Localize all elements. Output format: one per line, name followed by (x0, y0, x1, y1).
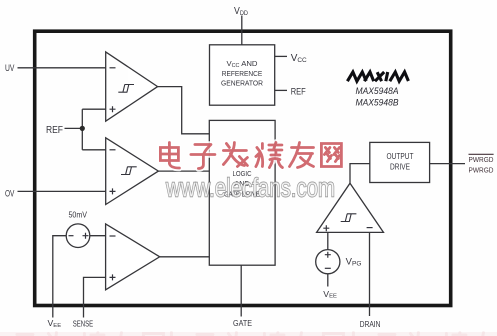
wire U2 output to logic block (158, 87, 210, 134)
svg-text:REF: REF (291, 87, 306, 98)
source V2 VPG (327, 232, 329, 249)
source V1 50mV offset (66, 224, 90, 248)
svg-text:PWRGD: PWRGD (469, 155, 494, 164)
block U7 output drive (370, 142, 430, 182)
comparator U3 overvoltage (106, 138, 159, 205)
svg-text:50mV: 50mV (69, 209, 88, 219)
hysteresis symbol comparator U3 (121, 167, 137, 175)
svg-text:MAX5948B: MAX5948B (356, 97, 400, 108)
junction node REF (80, 126, 85, 131)
IC boundary box (35, 31, 451, 305)
svg-text:VPG: VPG (346, 257, 362, 268)
pin REF stub (275, 89, 287, 91)
svg-text:REFERENCE: REFERENCE (222, 69, 263, 78)
wire GATE (240, 265, 242, 316)
wire U3 output to logic block (158, 170, 209, 172)
svg-text:GENERATOR: GENERATOR (221, 78, 263, 87)
svg-text:OV: OV (5, 188, 14, 198)
svg-text:VCC: VCC (291, 52, 307, 64)
pin VCC stub (275, 55, 287, 57)
svg-text:DRAIN: DRAIN (360, 319, 381, 329)
svg-text:REF: REF (46, 125, 63, 136)
wire VDD (241, 16, 243, 46)
svg-text:MAX5948A: MAX5948A (356, 86, 399, 97)
svg-text:VCC AND: VCC AND (227, 59, 258, 69)
wire VEE to 50mV source (53, 236, 66, 318)
svg-text:www.elecfans.com: www.elecfans.com (165, 174, 335, 202)
svg-text:VDD: VDD (234, 5, 248, 17)
block U1 VCC and reference generator (210, 45, 275, 105)
wire 50mV source to U4 minus (90, 235, 106, 237)
wire SENSE to U4 plus (84, 277, 106, 317)
wire VPG source to VEE (327, 274, 329, 287)
hysteresis symbol comparator U6 (341, 214, 357, 222)
svg-text:UV: UV (5, 63, 14, 73)
comparator U4 current sense (106, 224, 160, 290)
comparator U2 undervoltage (106, 52, 158, 121)
wire REF to U2 plus (82, 108, 105, 110)
wire OV (18, 190, 106, 192)
svg-text:OUTPUT: OUTPUT (387, 152, 414, 161)
hysteresis symbol comparator U2 (118, 85, 134, 93)
wire REF to U3 minus (82, 149, 105, 151)
wire U6 output to output drive (350, 164, 370, 184)
wire PWRGD (430, 163, 465, 165)
wire REF vertical (81, 109, 83, 150)
comparator U6 power good (317, 183, 384, 232)
svg-text:VEE: VEE (48, 318, 62, 329)
svg-text:GATE: GATE (233, 318, 252, 328)
svg-text:SENSE: SENSE (73, 318, 94, 328)
wire DRAIN (369, 232, 371, 316)
svg-text:VEE: VEE (323, 289, 337, 300)
wire UV (18, 67, 106, 69)
watermark chinese characters (160, 143, 341, 169)
Maxim logo (347, 72, 408, 81)
node REF stub wire (65, 127, 83, 129)
svg-text:DRIVE: DRIVE (390, 163, 410, 172)
watermark bottom partial band (0, 332, 497, 336)
block U5 logic and gate drive (209, 120, 275, 265)
wire U4 output to logic block (160, 256, 210, 258)
svg-text:PWRGD: PWRGD (469, 165, 494, 174)
